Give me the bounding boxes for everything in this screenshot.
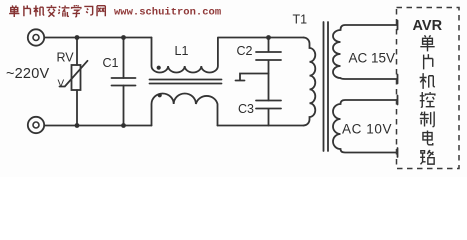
svg-text:AC 10V: AC 10V: [342, 122, 392, 137]
svg-text:V: V: [58, 79, 65, 90]
svg-text:T1: T1: [293, 13, 308, 27]
svg-text:L1: L1: [175, 44, 189, 58]
svg-text:C1: C1: [103, 56, 119, 70]
svg-text:AVR: AVR: [413, 18, 443, 34]
svg-text:~220V: ~220V: [6, 66, 49, 82]
svg-text:AC 15V: AC 15V: [349, 51, 396, 66]
svg-text:www.schuitron.com: www.schuitron.com: [114, 7, 221, 19]
svg-text:C3: C3: [238, 102, 254, 116]
svg-text:RV: RV: [57, 51, 75, 65]
svg-text:C2: C2: [237, 44, 253, 58]
